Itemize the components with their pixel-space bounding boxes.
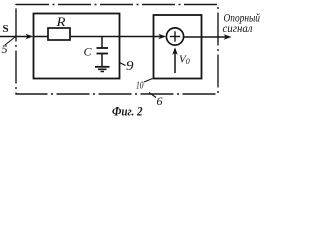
svg-text:6: 6 [157, 94, 163, 108]
svg-text:сигнал: сигнал [223, 21, 253, 35]
svg-text:9: 9 [126, 59, 134, 74]
svg-text:S: S [3, 23, 9, 35]
svg-text:R: R [55, 14, 65, 29]
svg-text:Фиг. 2: Фиг. 2 [112, 104, 143, 119]
svg-text:10: 10 [136, 81, 144, 92]
svg-text:C: C [84, 45, 93, 59]
